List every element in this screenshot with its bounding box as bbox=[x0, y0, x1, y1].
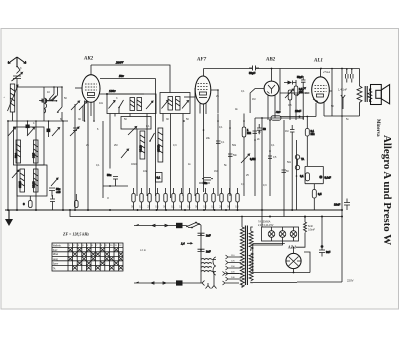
100V line bbox=[100, 89, 144, 95]
antenna bbox=[8, 57, 26, 66]
AF7 grid wire bbox=[184, 96, 196, 98]
scattered value labels bbox=[3, 67, 349, 187]
svg-text:2,4V 0,2A 15V: 2,4V 0,2A 15V bbox=[258, 224, 274, 227]
AL1 top lead bbox=[320, 69, 322, 77]
svg-text:AK2: AK2 bbox=[83, 57, 94, 62]
svg-text:0,1: 0,1 bbox=[300, 175, 304, 178]
svg-text:10n: 10n bbox=[99, 102, 104, 105]
trimmer arrow on x75 bbox=[71, 101, 80, 110]
AZ1 internals bbox=[286, 257, 301, 267]
oscillator box bbox=[107, 94, 156, 114]
tube AL1 bbox=[312, 77, 330, 103]
lamp feed wires bbox=[253, 210, 283, 245]
choke bracket arcs bbox=[212, 257, 216, 275]
svg-text:+10: +10 bbox=[56, 190, 61, 194]
svg-text:10uF: 10uF bbox=[295, 109, 301, 113]
AL1 cathode wiring bbox=[280, 103, 316, 118]
cap 50u mid bbox=[107, 173, 118, 186]
table row labels bbox=[53, 245, 62, 270]
band coil 0505b bbox=[157, 128, 163, 162]
misc mid ticks bbox=[216, 131, 286, 172]
trimmer arrow T4 bbox=[12, 170, 19, 178]
cap horizontal 50n bbox=[202, 178, 213, 186]
svg-text:ZF = 128,5 kHz: ZF = 128,5 kHz bbox=[62, 232, 89, 237]
svg-text:Minerva: Minerva bbox=[375, 119, 380, 137]
coil 0203 bbox=[32, 169, 39, 192]
wave switch contacts bbox=[44, 86, 63, 121]
fixed capacitor block C3 bbox=[26, 125, 30, 129]
resistor row labels bbox=[131, 207, 239, 209]
cap 2uF a bbox=[198, 233, 211, 237]
svg-text:50n: 50n bbox=[287, 161, 292, 164]
diode load resistor bbox=[288, 90, 292, 120]
AK2 pins bbox=[84, 65, 95, 210]
antenna trimmer capacitor bbox=[12, 72, 23, 81]
mid-right verticals bbox=[218, 114, 297, 217]
resistor row to ground bus bbox=[132, 188, 239, 210]
AL1 pins bbox=[323, 103, 325, 117]
rectifier loop wiring bbox=[253, 244, 310, 273]
voltage selector taps bbox=[226, 255, 242, 281]
mains switch bbox=[188, 223, 200, 228]
antenna coil L1 bbox=[8, 84, 19, 112]
tube AF7 bbox=[195, 76, 211, 104]
wire y183 bbox=[199, 182, 210, 184]
svg-text:MΩ: MΩ bbox=[311, 133, 315, 136]
IF2 trimmer right bbox=[182, 101, 189, 109]
svg-text:Wellenb.: Wellenb. bbox=[53, 245, 62, 247]
wire antenna down bbox=[16, 79, 18, 122]
svg-text:AZ 1: AZ 1 bbox=[287, 245, 296, 250]
AF7 pins bbox=[200, 69, 206, 193]
output transformer core bbox=[365, 86, 367, 102]
box below osc bbox=[121, 117, 151, 130]
vertical x303 bbox=[302, 86, 304, 120]
svg-text:50pF: 50pF bbox=[249, 71, 256, 75]
mid verticals cluster bbox=[103, 88, 195, 198]
filter cap right bbox=[319, 217, 331, 257]
svg-text:1M: 1M bbox=[285, 130, 288, 133]
wire to band filter bbox=[17, 86, 44, 88]
on-bus component b bbox=[50, 195, 55, 210]
RC box right bbox=[305, 166, 323, 183]
dial lamp 2 bbox=[279, 227, 286, 241]
trimmer arrow T3 bbox=[52, 128, 60, 137]
mains forks bbox=[206, 272, 217, 289]
selector fork upper bbox=[223, 272, 240, 276]
padder cap bbox=[70, 127, 79, 136]
tube AB2 bbox=[264, 81, 279, 96]
switch S2 bbox=[49, 87, 58, 101]
bus junction dots bbox=[7, 209, 343, 218]
AK2 grid wire bbox=[75, 87, 83, 89]
svg-text:10uF: 10uF bbox=[334, 203, 340, 207]
jack fork bbox=[341, 95, 345, 109]
mixer trimmer bbox=[79, 102, 87, 122]
speaker bottom wire bbox=[324, 68, 360, 117]
secondary LT winding bbox=[249, 253, 253, 283]
svg-text:TA: TA bbox=[53, 267, 56, 270]
svg-text:Sperr: Sperr bbox=[53, 262, 59, 265]
svg-text:0,1: 0,1 bbox=[241, 90, 245, 93]
dial lamp caption bbox=[258, 221, 274, 227]
trimmer arrow T5 bbox=[51, 178, 58, 186]
secondary HV winding bbox=[249, 227, 253, 251]
on-bus component c bbox=[75, 194, 79, 208]
AB2 internals bbox=[267, 85, 275, 94]
svg-text:MΩ: MΩ bbox=[299, 91, 303, 94]
trimmer arrow T2 bbox=[27, 128, 35, 137]
AB2 pins down bbox=[268, 95, 275, 120]
oscillator coil box 2 bbox=[17, 165, 47, 196]
wire stubs C3 C4 bbox=[27, 120, 50, 137]
heater wire upper bbox=[253, 272, 310, 274]
AB2 left lead bbox=[250, 89, 264, 114]
svg-text:0,1: 0,1 bbox=[157, 176, 161, 180]
switch table grid bbox=[52, 243, 123, 271]
osc switch bbox=[118, 100, 123, 114]
svg-text:0,5: 0,5 bbox=[288, 104, 292, 107]
PSU bottom wire bbox=[297, 281, 342, 283]
svg-text:1M: 1M bbox=[214, 170, 217, 173]
svg-text:1,4 1nF: 1,4 1nF bbox=[338, 88, 347, 92]
pickup jacks bbox=[295, 155, 304, 170]
selector fork lower bbox=[223, 281, 240, 285]
50V line bbox=[100, 74, 156, 121]
IF2 coils bbox=[168, 97, 180, 111]
mains choke lower bbox=[201, 267, 212, 272]
rail x17 bbox=[16, 121, 18, 210]
arrow on 0310 bbox=[128, 127, 137, 136]
filter cap labels bbox=[308, 225, 316, 232]
coil L1 bottom lead bbox=[12, 112, 14, 121]
cap 2uF b bbox=[198, 249, 211, 253]
svg-text:100v: 100v bbox=[109, 89, 116, 93]
svg-text:0,1: 0,1 bbox=[219, 126, 223, 129]
sub-bus AVC line bbox=[8, 120, 68, 122]
coil 335 bbox=[32, 140, 39, 163]
detector diode bbox=[284, 81, 297, 85]
osc trimmer bbox=[109, 101, 116, 109]
antenna switch S1 bbox=[16, 66, 20, 74]
coil 0505 bbox=[18, 169, 25, 192]
svg-text:MΩ: MΩ bbox=[247, 132, 251, 135]
1.4 arrow label bbox=[181, 242, 192, 245]
comp 0.1u mid bbox=[156, 173, 163, 183]
bandswitch coil L2 bbox=[44, 87, 47, 121]
svg-text:TA: TA bbox=[301, 158, 304, 161]
heater wire lower bbox=[253, 282, 297, 284]
AF7 anode wire bbox=[211, 89, 219, 113]
AL1 internals bbox=[313, 86, 327, 102]
tube AK2 bbox=[82, 75, 100, 103]
mains choke upper bbox=[201, 259, 212, 264]
filter resistor bbox=[296, 216, 307, 247]
dial lamp 3 bbox=[290, 227, 297, 241]
cap 10uF on bus bbox=[334, 199, 350, 211]
svg-text:0,1uF: 0,1uF bbox=[325, 177, 332, 180]
rail x63 bbox=[62, 120, 64, 210]
mains left rail bbox=[200, 225, 202, 283]
cap dot in box bbox=[319, 175, 331, 179]
misc labels 2 bbox=[206, 131, 289, 186]
svg-text:1M: 1M bbox=[305, 92, 308, 95]
svg-text:0,5mF: 0,5mF bbox=[308, 229, 316, 232]
svg-text:0,1: 0,1 bbox=[96, 164, 100, 167]
svg-text:0,5M: 0,5M bbox=[250, 158, 256, 161]
resistor 0.1M right bbox=[305, 116, 314, 136]
switch mid bbox=[149, 133, 154, 142]
svg-text:50v: 50v bbox=[119, 74, 124, 78]
svg-text:27mA: 27mA bbox=[323, 70, 330, 74]
grid cap C6 bbox=[41, 96, 58, 103]
svg-text:220V: 220V bbox=[347, 279, 354, 283]
IF2 trimmer left bbox=[162, 101, 169, 109]
ground symbol bbox=[5, 210, 13, 226]
table header ticks bbox=[69, 245, 123, 247]
svg-text:AF7: AF7 bbox=[196, 58, 207, 63]
loudspeaker bbox=[371, 85, 390, 105]
output top line bbox=[320, 68, 343, 70]
AF7 internals bbox=[198, 84, 209, 98]
wire left rail bbox=[7, 121, 9, 210]
mains cord bbox=[134, 280, 199, 285]
svg-text:8uF: 8uF bbox=[326, 251, 331, 254]
volume pot arrow bbox=[285, 89, 294, 98]
resistor 0.5M bbox=[294, 80, 303, 120]
AB2 anode feed line bbox=[255, 117, 304, 119]
misc mid dots bbox=[183, 120, 297, 177]
cap at 292 bbox=[290, 125, 295, 210]
svg-text:Lang: Lang bbox=[53, 259, 59, 261]
power transformer primary bbox=[240, 216, 244, 288]
table X marks bbox=[68, 248, 122, 270]
svg-text:Mittel: Mittel bbox=[53, 253, 59, 256]
wire IF2 down bbox=[171, 114, 184, 199]
svg-text:335: 335 bbox=[32, 153, 36, 158]
svg-text:50pF: 50pF bbox=[297, 76, 303, 79]
mains fork left bbox=[199, 281, 205, 286]
rail x36 bbox=[35, 120, 37, 210]
cap 50pF b bbox=[297, 76, 306, 86]
grid capacitor C2 bbox=[39, 99, 49, 103]
fixed capacitor block C4 bbox=[47, 129, 51, 133]
rectifier AZ1 bbox=[286, 253, 301, 268]
rail x75 bbox=[74, 104, 76, 210]
trimmer arrow T1 bbox=[8, 128, 16, 137]
svg-text:0,1: 0,1 bbox=[146, 125, 150, 128]
dial cord upper bbox=[134, 222, 201, 229]
svg-text:12 m: 12 m bbox=[140, 248, 147, 252]
detector line bbox=[280, 88, 310, 97]
svg-text:2uF: 2uF bbox=[206, 234, 211, 238]
svg-text:1M: 1M bbox=[252, 98, 255, 101]
svg-text:50n: 50n bbox=[233, 154, 238, 157]
svg-text:2M: 2M bbox=[114, 144, 117, 147]
ground bus bbox=[5, 209, 342, 211]
resistor below box bbox=[312, 184, 322, 210]
selector labels bbox=[231, 255, 235, 279]
50pF coupling cap bbox=[249, 66, 259, 76]
svg-text:0,3: 0,3 bbox=[173, 144, 177, 147]
svg-text:0310: 0310 bbox=[139, 145, 143, 152]
verticals under osc bbox=[110, 114, 130, 169]
svg-text:50u: 50u bbox=[107, 173, 112, 177]
osc trimmer right bbox=[146, 101, 153, 109]
transformer core bbox=[245, 226, 247, 286]
resistor in box bbox=[300, 173, 310, 181]
200V supply line bbox=[91, 61, 170, 93]
svg-text:0505: 0505 bbox=[18, 181, 22, 188]
osc coil pair bbox=[130, 98, 142, 111]
second bus bbox=[69, 209, 342, 217]
on-bus component a bbox=[23, 196, 32, 208]
svg-text:AL1: AL1 bbox=[313, 59, 323, 64]
svg-text:0505: 0505 bbox=[157, 145, 161, 152]
drop from top line bbox=[276, 69, 281, 115]
AB2 top lead bbox=[271, 68, 273, 81]
output transformer secondary bbox=[368, 89, 372, 102]
svg-text:2uF: 2uF bbox=[206, 250, 211, 254]
svg-text:0203: 0203 bbox=[32, 181, 36, 188]
dial lamp box bbox=[262, 227, 299, 241]
electrolytic 50uF bbox=[49, 187, 61, 197]
pot arrow mid bbox=[121, 149, 129, 158]
caps pair mid bbox=[257, 124, 266, 134]
svg-text:0,3: 0,3 bbox=[263, 184, 267, 187]
svg-text:AB2: AB2 bbox=[265, 58, 276, 63]
resistor 1M bbox=[242, 127, 251, 137]
svg-text:200V: 200V bbox=[116, 61, 124, 65]
decoupling resistor on feed bbox=[271, 116, 281, 120]
svg-text:1,4: 1,4 bbox=[181, 243, 185, 246]
svg-text:0,5: 0,5 bbox=[318, 193, 322, 196]
horiz wire y186 bbox=[103, 185, 128, 187]
top coupling line bbox=[204, 68, 360, 70]
IF transformer 2 box bbox=[160, 93, 190, 114]
dial lamp 1 bbox=[268, 227, 275, 241]
svg-text:Allegro A und Presto W: Allegro A und Presto W bbox=[381, 135, 393, 245]
right B+ rail bbox=[341, 69, 343, 283]
oscillator coil box 1 bbox=[14, 127, 45, 165]
pot 0.5M arrow bbox=[241, 154, 256, 163]
svg-text:4uF: 4uF bbox=[276, 110, 281, 114]
AZ1 leads bbox=[293, 247, 295, 274]
vertical x307 bbox=[306, 136, 308, 166]
svg-text:0310: 0310 bbox=[131, 163, 137, 166]
speaker field coil bbox=[357, 69, 362, 117]
coil 500 bbox=[14, 140, 21, 163]
band coil 0310 bbox=[139, 131, 145, 159]
AK2 internals bbox=[85, 84, 97, 98]
tone caps bbox=[346, 68, 354, 82]
svg-text:0,1: 0,1 bbox=[271, 144, 275, 147]
